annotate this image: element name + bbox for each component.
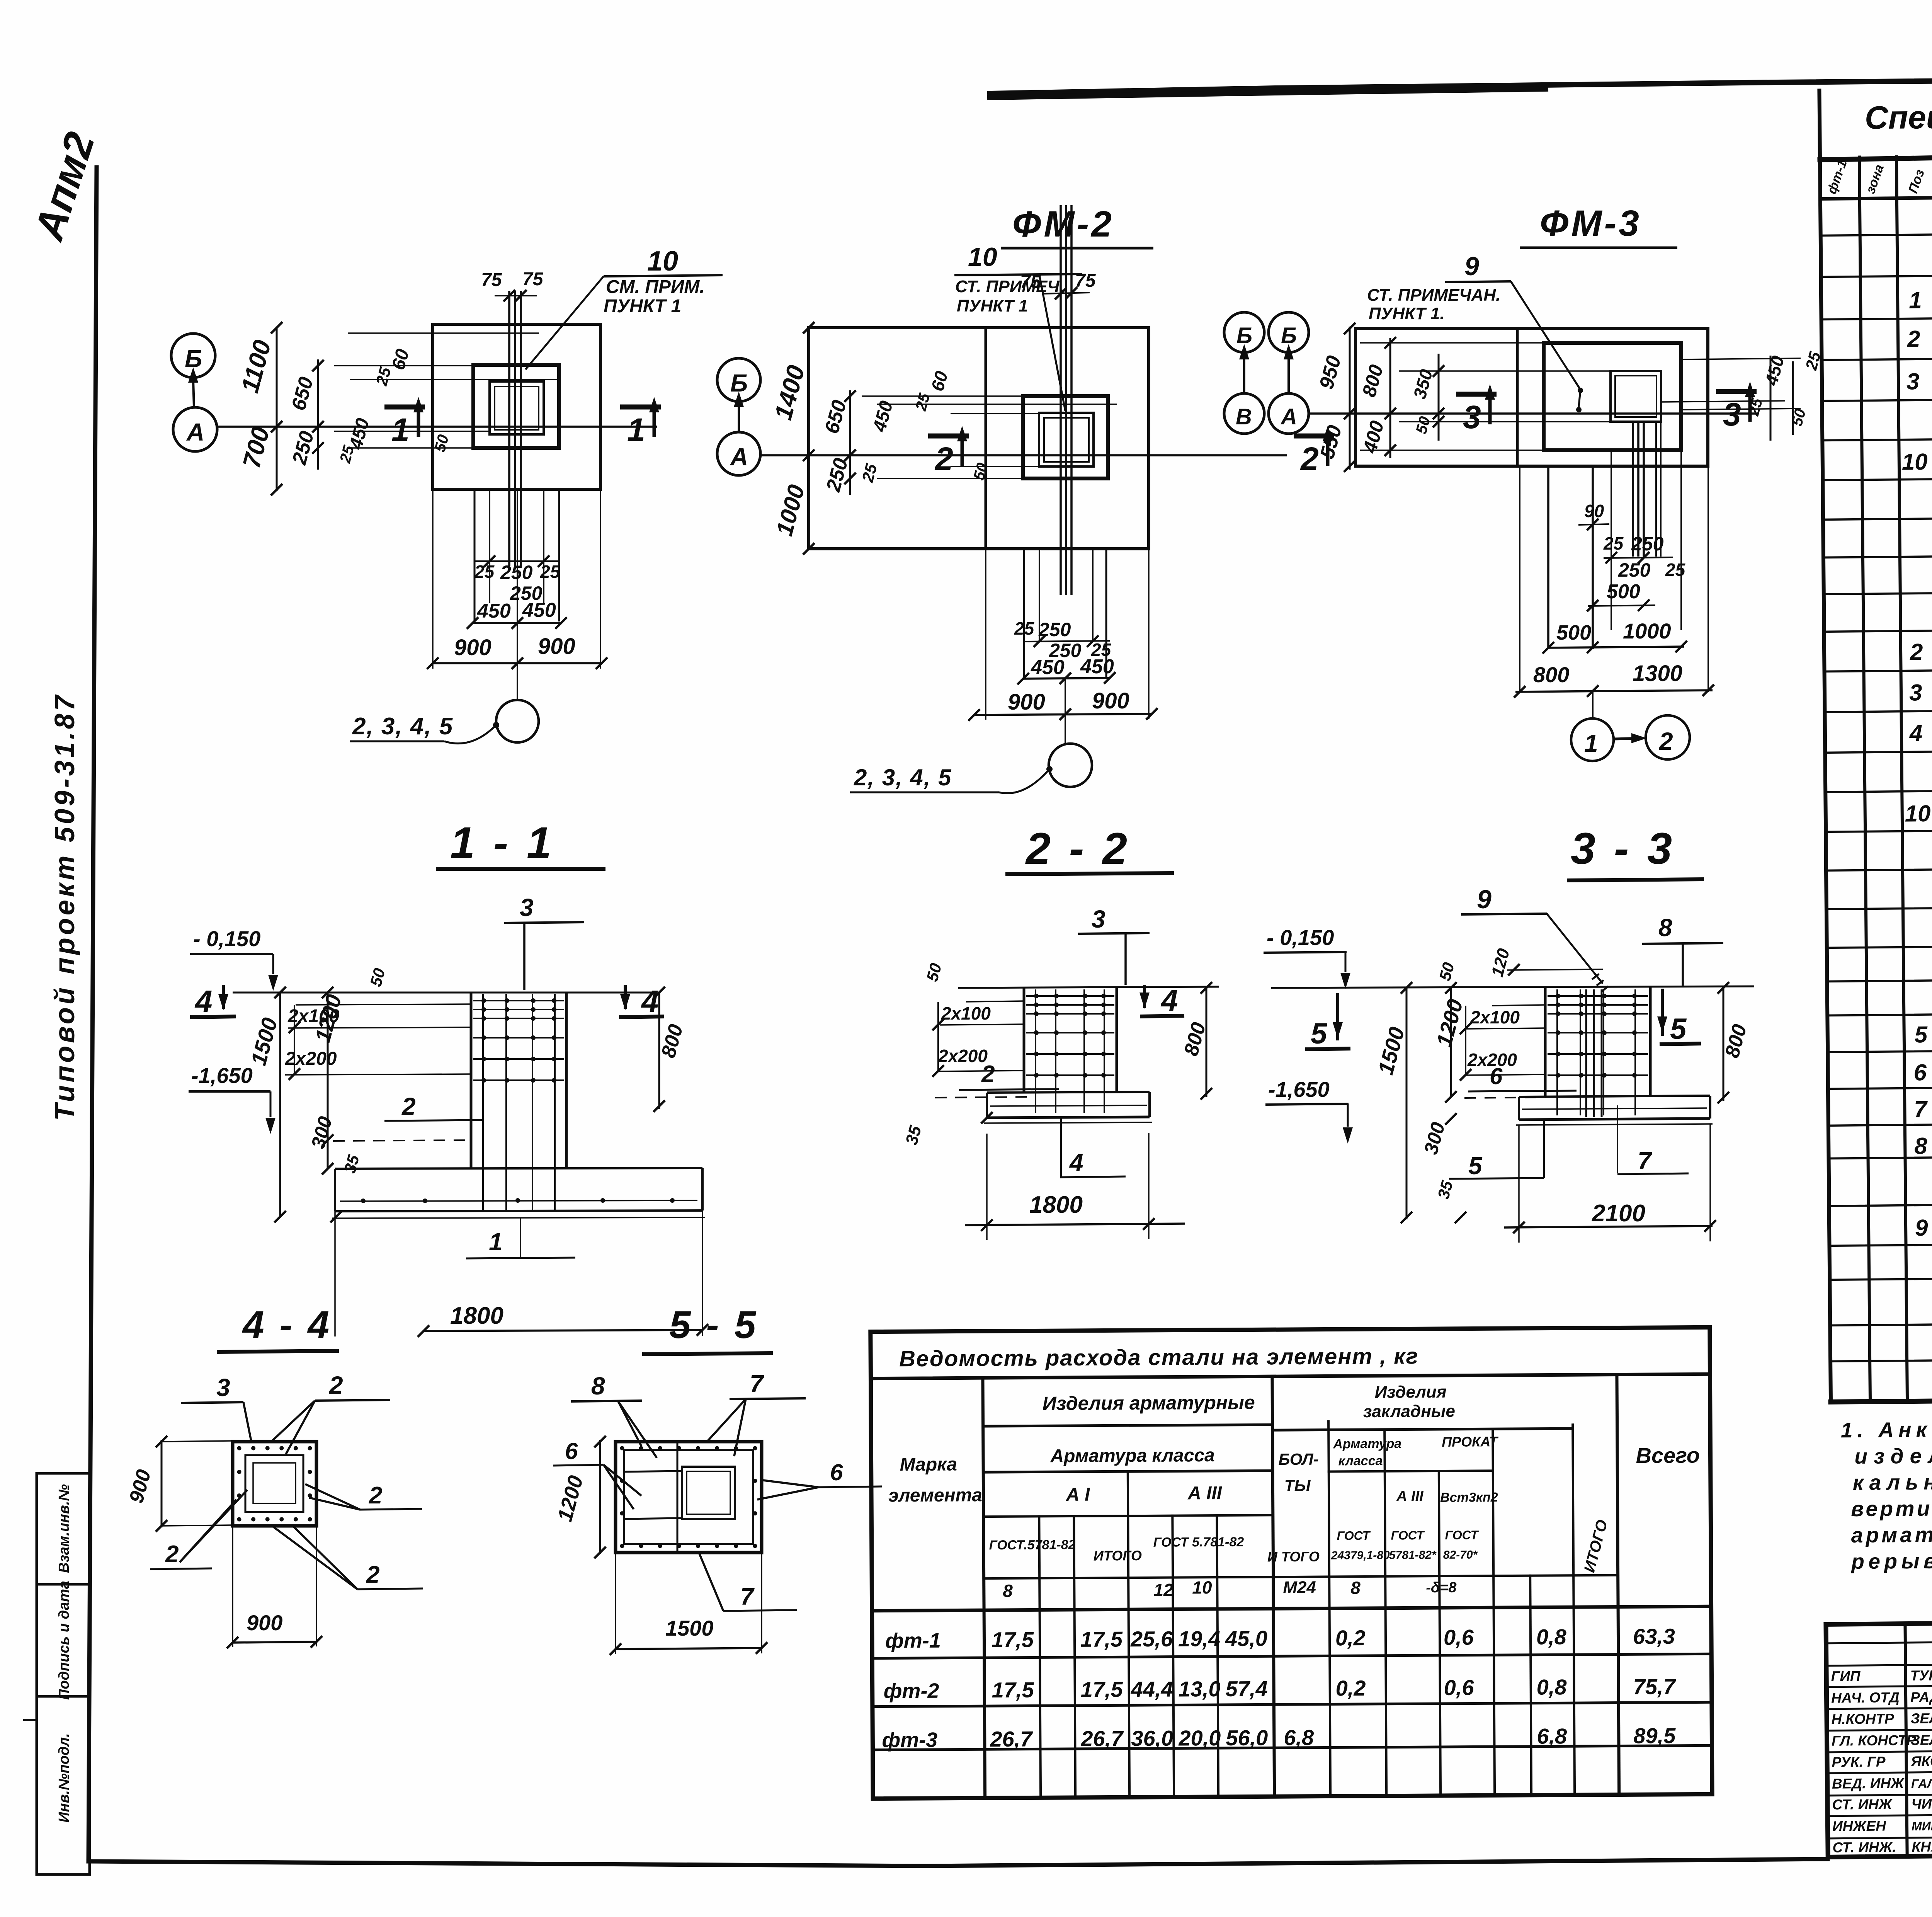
svg-text:10: 10 — [1902, 449, 1928, 475]
svg-text:ФМ-2: ФМ-2 — [1012, 204, 1114, 245]
svg-text:2: 2 — [366, 1561, 379, 1588]
plan2 section mark 2 left — [928, 434, 969, 439]
svg-text:25,6: 25,6 — [1130, 1627, 1173, 1651]
sec44 square — [233, 1442, 316, 1526]
svg-text:2х100: 2х100 — [1470, 1007, 1520, 1027]
sec11 column reinforcement — [482, 994, 484, 1210]
svg-text:рерывнон цепн молниезащи: рерывнон цепн молниезащиты. — [1850, 1546, 1932, 1573]
svg-text:6: 6 — [1913, 1059, 1927, 1085]
svg-text:5: 5 — [1670, 1013, 1687, 1045]
svg-text:6: 6 — [565, 1438, 578, 1464]
svg-text:6: 6 — [830, 1459, 843, 1485]
plan3 anchor bolts — [1632, 422, 1634, 557]
svg-text:-1,650: -1,650 — [1268, 1077, 1330, 1102]
svg-text:ПУНКТ 1.: ПУНКТ 1. — [1369, 304, 1445, 323]
plan2 section mark 2 right — [1294, 434, 1334, 439]
svg-text:Ведомость расхода ста: Ведомость расхода стали на элемент , кг — [899, 1343, 1419, 1371]
svg-text:БОЛ-: БОЛ- — [1278, 1450, 1318, 1469]
svg-text:500: 500 — [1607, 581, 1640, 603]
svg-text:8: 8 — [1350, 1578, 1361, 1598]
svg-text:2: 2 — [1659, 727, 1673, 755]
sec11 base slab — [335, 1168, 702, 1169]
sec55 dim 1200 left — [599, 1440, 601, 1554]
svg-text:2х100: 2х100 — [941, 1003, 991, 1023]
plan3 axis line — [1309, 412, 1758, 415]
sec11 right dim 800 — [658, 993, 660, 1109]
svg-text:РАДЬКО: РАДЬКО — [1910, 1689, 1932, 1705]
svg-text:24379,1-80: 24379,1-80 — [1331, 1549, 1390, 1562]
svg-text:9: 9 — [1915, 1215, 1929, 1241]
svg-text:45,0: 45,0 — [1225, 1626, 1267, 1651]
plan3 lower strip — [1519, 466, 1520, 692]
svg-text:0,2: 0,2 — [1336, 1676, 1366, 1700]
sec11 column — [470, 993, 473, 1169]
plan2 column stub — [1023, 396, 1108, 478]
svg-text:25: 25 — [474, 562, 495, 582]
plan1 lower strip — [474, 489, 476, 621]
spec table header bottom line — [1820, 191, 1932, 199]
sec33 column — [1544, 988, 1547, 1097]
svg-text:НАЧ. ОТД: НАЧ. ОТД — [1831, 1689, 1900, 1706]
sec22 column reinforcement — [1035, 989, 1036, 1113]
svg-text:250: 250 — [1618, 559, 1651, 581]
svg-text:36,0: 36,0 — [1131, 1726, 1173, 1751]
svg-text:СТ. ИНЖ: СТ. ИНЖ — [1832, 1796, 1893, 1812]
plan1 axis circle Б — [171, 334, 215, 378]
sec11 ground dashed line — [333, 1140, 471, 1141]
sec22 base slab — [987, 1092, 1150, 1093]
plan3 axis circle Б2 — [1269, 312, 1309, 352]
svg-text:4: 4 — [641, 984, 659, 1018]
svg-text:арматуре подошвы для со: арматуре подошвы для создания неп- — [1851, 1520, 1932, 1547]
svg-text:ИНЖЕН: ИНЖЕН — [1832, 1818, 1887, 1834]
specification table — [1819, 83, 1932, 1402]
svg-text:ТЫ: ТЫ — [1284, 1476, 1311, 1495]
svg-text:ПУНКТ 1: ПУНКТ 1 — [604, 296, 681, 317]
svg-text:ПРОКАТ: ПРОКАТ — [1442, 1433, 1499, 1450]
svg-text:4: 4 — [1909, 720, 1923, 746]
svg-text:2: 2 — [934, 441, 953, 477]
plan2 lower strip — [1023, 549, 1025, 677]
plan1 section mark 1 right — [620, 405, 661, 410]
sec22 column — [1023, 988, 1026, 1093]
svg-text:900: 900 — [454, 635, 492, 660]
svg-text:0,2: 0,2 — [1335, 1626, 1366, 1650]
svg-text:3: 3 — [520, 894, 534, 921]
svg-text:ГОСТ: ГОСТ — [1391, 1528, 1425, 1542]
svg-text:17,5: 17,5 — [992, 1677, 1034, 1702]
svg-text:900: 900 — [1092, 688, 1129, 713]
svg-text:2: 2 — [1300, 441, 1319, 477]
plan1 outer square — [433, 324, 600, 489]
plan ФМ-3 — [1224, 203, 1824, 761]
svg-text:9: 9 — [1464, 252, 1479, 281]
svg-text:4: 4 — [1160, 983, 1178, 1017]
svg-text:89,5: 89,5 — [1633, 1723, 1676, 1748]
svg-text:Изделия арматурные: Изделия арматурные — [1043, 1391, 1255, 1414]
svg-text:2, 3, 4, 5: 2, 3, 4, 5 — [352, 713, 453, 740]
svg-text:Вст3кп2: Вст3кп2 — [1440, 1490, 1498, 1505]
sheet frame bottom border — [88, 1859, 1828, 1866]
steel consumption table (ведомость расхода стали) — [871, 1327, 1712, 1798]
svg-text:5: 5 — [1468, 1152, 1483, 1180]
svg-text:Инв.№подл.: Инв.№подл. — [56, 1733, 72, 1822]
svg-text:8: 8 — [1003, 1581, 1013, 1601]
svg-text:Типовой проект 509-31.87: Типовой проект 509-31.87 — [49, 693, 80, 1121]
svg-text:2: 2 — [1907, 326, 1920, 352]
svg-text:0,6: 0,6 — [1444, 1675, 1474, 1700]
svg-text:0,8: 0,8 — [1536, 1675, 1567, 1699]
plan1 axis line — [217, 426, 657, 428]
svg-text:75: 75 — [522, 269, 544, 289]
svg-text:ГОСТ 5.781-82: ГОСТ 5.781-82 — [1153, 1535, 1244, 1550]
title block outer — [1826, 1617, 1932, 1857]
steel table outer — [871, 1327, 1712, 1798]
svg-text:5: 5 — [1311, 1017, 1328, 1050]
plan1 node circle 2,3,4,5 — [517, 489, 518, 700]
svg-text:2: 2 — [981, 1061, 995, 1088]
plan2 node circle 2,3,4,5 — [1065, 677, 1066, 744]
svg-text:ПУНКТ 1: ПУНКТ 1 — [957, 296, 1028, 315]
svg-text:Арматура класса: Арматура класса — [1050, 1445, 1215, 1466]
svg-text:2: 2 — [401, 1093, 416, 1120]
svg-text:А: А — [1280, 404, 1297, 429]
svg-text:25: 25 — [1014, 618, 1035, 638]
svg-text:1800: 1800 — [1029, 1192, 1083, 1218]
svg-text:Изделия: Изделия — [1375, 1382, 1447, 1402]
plan1 dim line 1100/700 — [276, 327, 278, 491]
svg-text:ГАЛАКТИОНОВА: ГАЛАКТИОНОВА — [1911, 1776, 1932, 1791]
svg-text:М24: М24 — [1283, 1578, 1316, 1597]
svg-text:- 0,150: - 0,150 — [193, 926, 260, 951]
plan2 inner square — [1039, 413, 1094, 466]
plan3 column stub — [1544, 343, 1681, 450]
spec table outer verticals — [1819, 90, 1831, 1402]
svg-text:А: А — [186, 418, 204, 446]
svg-text:Всего: Всего — [1636, 1443, 1700, 1468]
svg-text:20,0: 20,0 — [1178, 1726, 1221, 1750]
svg-text:12: 12 — [1153, 1580, 1173, 1600]
svg-text:А: А — [730, 443, 748, 471]
svg-text:3: 3 — [1092, 905, 1105, 933]
svg-text:СТ. ПРИМЕЧАН.: СТ. ПРИМЕЧАН. — [1367, 286, 1500, 305]
svg-text:75,7: 75,7 — [1633, 1674, 1676, 1699]
svg-text:вертикальную арматуру при: вертикальную арматуру приварить к — [1851, 1493, 1932, 1521]
sec55 rect — [616, 1442, 762, 1553]
svg-text:-1,650: -1,650 — [191, 1063, 253, 1088]
svg-text:3: 3 — [1463, 399, 1481, 435]
svg-text:КНЯЖИЦКАЯ: КНЯЖИЦКАЯ — [1912, 1838, 1932, 1855]
sec33 left dim 1500/1200 — [1406, 988, 1408, 1219]
plan2 extension lines — [862, 395, 1023, 397]
svg-text:900: 900 — [247, 1611, 282, 1635]
svg-text:ЗЕЛЕНСКИЙ: ЗЕЛЕНСКИЙ — [1910, 1709, 1932, 1726]
svg-text:класса: класса — [1338, 1454, 1383, 1469]
svg-text:900: 900 — [538, 634, 575, 659]
plan3 section mark 3 left — [1456, 392, 1497, 397]
spec table bottom line — [1831, 1394, 1932, 1402]
svg-text:450: 450 — [1031, 656, 1065, 679]
svg-text:6: 6 — [1490, 1063, 1503, 1089]
svg-text:44,4: 44,4 — [1131, 1677, 1173, 1702]
svg-text:Арматура: Арматура — [1333, 1436, 1401, 1451]
svg-text:ГОСТ: ГОСТ — [1445, 1528, 1479, 1542]
svg-text:1 - 1: 1 - 1 — [450, 818, 554, 868]
sec44 dim 900 left — [161, 1440, 163, 1527]
svg-text:1800: 1800 — [450, 1302, 503, 1329]
sec33 column reinforcement — [1556, 989, 1558, 1115]
svg-text:5: 5 — [1914, 1021, 1928, 1047]
sheet frame left border — [88, 167, 97, 1861]
section 4-4 — [125, 1303, 423, 1648]
sec33 top line — [1271, 986, 1754, 988]
svg-text:А I: А I — [1066, 1485, 1090, 1505]
left margin stamp boxes — [37, 1473, 90, 1874]
svg-text:1000: 1000 — [1623, 619, 1671, 643]
spec table row lines — [1821, 228, 1932, 235]
svg-text:Б: Б — [1281, 323, 1297, 348]
svg-text:СТ. ПРИМЕЧ.: СТ. ПРИМЕЧ. — [955, 277, 1064, 296]
sec55 cross lines — [677, 1442, 679, 1553]
plan1 axis connector — [193, 380, 194, 407]
plan2 anchor bolts — [1060, 205, 1062, 595]
plan2 axis circle Б — [717, 358, 760, 402]
svg-text:ЗЕЛЕНСКИЙ: ЗЕЛЕНСКИЙ — [1911, 1731, 1932, 1748]
svg-text:0,8: 0,8 — [1536, 1624, 1567, 1649]
sec11 top line — [233, 992, 657, 994]
sec33 ground dashed — [1464, 1097, 1546, 1098]
svg-text:А III: А III — [1396, 1488, 1424, 1504]
svg-text:ИТОГО: ИТОГО — [1094, 1548, 1142, 1564]
svg-text:2, 3, 4, 5: 2, 3, 4, 5 — [854, 764, 952, 790]
plan3 left dims 800/400 — [1389, 338, 1391, 458]
svg-text:РУК. ГР: РУК. ГР — [1832, 1754, 1886, 1770]
svg-text:закладные: закладные — [1363, 1402, 1455, 1421]
svg-text:6,8: 6,8 — [1284, 1725, 1314, 1750]
plan2 axis circle А — [717, 432, 760, 475]
sec33 base slab — [1519, 1096, 1710, 1097]
plan2 axis line — [760, 454, 1287, 456]
svg-text:СТ. ИНЖ.: СТ. ИНЖ. — [1832, 1839, 1896, 1855]
svg-text:450: 450 — [1080, 655, 1114, 678]
sec44 rebar dots — [237, 1446, 241, 1451]
sec55 inner square — [682, 1467, 735, 1519]
small tick marks left margin — [23, 1719, 37, 1721]
svg-text:75: 75 — [481, 270, 502, 290]
plan3 node circles 1 and 2 — [1592, 692, 1594, 718]
steel table horizontals — [983, 1425, 1272, 1426]
sec11 left dim 1500/1200 — [279, 993, 281, 1217]
svg-text:2: 2 — [329, 1371, 343, 1399]
svg-text:10: 10 — [1192, 1577, 1212, 1597]
svg-text:А III: А III — [1187, 1483, 1223, 1503]
svg-text:кальнои арматуре фунд: кальнои арматуре фундамента, — [1853, 1467, 1932, 1495]
svg-text:1: 1 — [1584, 729, 1598, 757]
svg-text:Н.КОНТР: Н.КОНТР — [1831, 1711, 1894, 1727]
plan3 right dims — [1770, 356, 1772, 441]
svg-text:ВЕД. ИНЖ: ВЕД. ИНЖ — [1832, 1775, 1905, 1792]
svg-text:90: 90 — [1584, 501, 1604, 521]
svg-text:13,0: 13,0 — [1179, 1677, 1221, 1701]
plan1 extension lines — [334, 365, 473, 366]
svg-text:450: 450 — [477, 600, 511, 622]
svg-text:500: 500 — [1556, 621, 1591, 644]
sec22 ground dashed — [935, 1097, 1028, 1098]
svg-text:2х200: 2х200 — [285, 1049, 337, 1069]
svg-text:2: 2 — [165, 1541, 179, 1568]
plan ФМ-2 — [717, 204, 1334, 793]
svg-text:19,4: 19,4 — [1178, 1626, 1220, 1651]
svg-text:10: 10 — [647, 246, 678, 277]
svg-text:2: 2 — [1910, 639, 1923, 665]
svg-text:фт-3: фт-3 — [882, 1728, 937, 1752]
plan3 left dims 350/50 — [1438, 354, 1440, 441]
svg-text:26,7: 26,7 — [990, 1726, 1033, 1751]
plan2 outer rect — [809, 328, 1149, 549]
svg-text:25: 25 — [1603, 533, 1624, 553]
svg-text:ГОСТ: ГОСТ — [1337, 1529, 1371, 1542]
svg-text:63,3: 63,3 — [1633, 1624, 1675, 1649]
svg-text:3: 3 — [216, 1374, 230, 1401]
svg-text:25: 25 — [540, 562, 561, 582]
plan3 axis circle В — [1224, 393, 1264, 434]
svg-text:250: 250 — [1631, 533, 1664, 555]
svg-text:ЯКСУНОВ: ЯКСУНОВ — [1910, 1753, 1932, 1769]
svg-text:1300: 1300 — [1633, 661, 1682, 686]
svg-text:3 - 3: 3 - 3 — [1571, 824, 1675, 873]
plan3 section mark 3 right — [1716, 389, 1757, 394]
svg-text:1: 1 — [391, 412, 410, 448]
plan3 outer rect — [1355, 329, 1708, 466]
svg-text:250: 250 — [500, 562, 533, 583]
svg-text:Б: Б — [1236, 323, 1252, 348]
section 3-3 — [1264, 824, 1754, 1243]
svg-text:8: 8 — [591, 1372, 605, 1400]
svg-text:25: 25 — [1665, 560, 1686, 580]
section 1-1 — [189, 818, 708, 1337]
svg-text:фт-2: фт-2 — [884, 1679, 939, 1703]
svg-text:2 - 2: 2 - 2 — [1025, 824, 1130, 873]
note text (примечание) — [1841, 1412, 1932, 1573]
svg-text:ТУРИНСКИЙ: ТУРИНСКИЙ — [1910, 1667, 1932, 1684]
svg-text:450: 450 — [522, 599, 556, 621]
plan2 dims 1400/1000 — [803, 322, 815, 334]
svg-text:элемента: элемента — [888, 1485, 982, 1506]
svg-text:10: 10 — [1905, 800, 1930, 827]
svg-text:3: 3 — [1723, 396, 1741, 432]
plan3 axis circle А — [1269, 393, 1309, 434]
steel table verticals — [983, 1378, 985, 1798]
svg-text:2100: 2100 — [1592, 1200, 1645, 1227]
svg-text:Взам.инв.№: Взам.инв.№ — [56, 1484, 72, 1573]
svg-text:1: 1 — [489, 1228, 503, 1256]
svg-text:ЧИРВА: ЧИРВА — [1911, 1796, 1932, 1812]
svg-text:Марка: Марка — [900, 1454, 957, 1475]
plan1 section mark 1 left — [384, 405, 425, 410]
svg-text:2: 2 — [369, 1482, 382, 1509]
svg-text:1: 1 — [627, 412, 645, 448]
svg-text:4: 4 — [194, 984, 213, 1018]
svg-text:900: 900 — [1008, 690, 1045, 715]
svg-text:фт-1: фт-1 — [885, 1629, 941, 1653]
sec55 rebar dots — [620, 1446, 624, 1451]
svg-text:0,6: 0,6 — [1444, 1625, 1474, 1650]
svg-text:9: 9 — [1477, 885, 1492, 914]
svg-text:3: 3 — [1909, 679, 1922, 705]
sec22 top line — [958, 987, 1219, 988]
plan1 inner square — [490, 381, 544, 434]
sec33 right dim 800 — [1723, 988, 1725, 1101]
svg-text:4 - 4: 4 - 4 — [242, 1303, 332, 1347]
plan3 axis connectors — [1243, 357, 1245, 393]
steel table title separator — [871, 1374, 1710, 1378]
sheet frame top border — [990, 75, 1932, 94]
svg-text:10: 10 — [968, 242, 997, 272]
svg-text:И ТОГО: И ТОГО — [1267, 1549, 1320, 1565]
title block (основная надпись) — [1826, 1617, 1932, 1859]
spec table column verticals — [1859, 157, 1870, 1402]
svg-text:-δ=8: -δ=8 — [1426, 1580, 1457, 1596]
svg-text:МИРОШНИЧЕНКО: МИРОШНИЧЕНКО — [1912, 1818, 1932, 1833]
sec22 right dim 800 — [1206, 988, 1207, 1097]
svg-text:Спецификация: Спецификация — [1865, 97, 1932, 136]
plan2 dims 650/250 — [849, 390, 851, 495]
svg-text:Подпись и дата: Подпись и дата — [56, 1581, 72, 1700]
svg-text:1: 1 — [1909, 287, 1922, 313]
plan3 step line — [1516, 329, 1519, 466]
plan ФМ-1 — [171, 246, 723, 744]
svg-text:2х200: 2х200 — [938, 1046, 988, 1066]
plan3 axis circle Б1 — [1224, 312, 1264, 352]
section 5-5 — [553, 1303, 882, 1655]
spec table header slant line — [1820, 145, 1932, 160]
svg-text:17,5: 17,5 — [1081, 1677, 1123, 1702]
svg-text:4: 4 — [1069, 1149, 1083, 1176]
svg-text:800: 800 — [1533, 662, 1569, 687]
plan3 inner square — [1611, 371, 1661, 422]
plan2 axis connector — [738, 405, 740, 432]
section 2-2 — [902, 824, 1219, 1240]
svg-text:1500: 1500 — [665, 1616, 714, 1640]
svg-text:17,5: 17,5 — [992, 1627, 1034, 1652]
svg-text:5781-82*: 5781-82* — [1389, 1549, 1437, 1562]
svg-text:7: 7 — [740, 1583, 755, 1610]
svg-text:ГОСТ.5781-82: ГОСТ.5781-82 — [989, 1537, 1076, 1553]
svg-text:6,8: 6,8 — [1537, 1724, 1567, 1748]
plan1 column stub — [473, 365, 559, 448]
svg-text:СМ. ПРИМ.: СМ. ПРИМ. — [606, 277, 705, 297]
svg-text:5 - 5: 5 - 5 — [669, 1303, 758, 1347]
svg-text:82-70*: 82-70* — [1443, 1548, 1478, 1561]
svg-text:56,0: 56,0 — [1226, 1725, 1268, 1750]
svg-text:26,7: 26,7 — [1080, 1726, 1124, 1751]
svg-text:В: В — [1236, 404, 1252, 429]
svg-text:ГИП: ГИП — [1831, 1668, 1861, 1684]
svg-text:ГЛ. КОНСТР: ГЛ. КОНСТР — [1832, 1732, 1916, 1749]
svg-text:57,4: 57,4 — [1226, 1676, 1268, 1701]
plan1 dim line 650/250 — [317, 359, 319, 470]
svg-text:8: 8 — [1914, 1133, 1928, 1159]
svg-text:ФМ-3: ФМ-3 — [1540, 203, 1641, 244]
svg-text:7: 7 — [1914, 1096, 1928, 1122]
svg-text:7: 7 — [1638, 1147, 1653, 1175]
title block verticals — [1905, 1624, 1907, 1856]
svg-text:8: 8 — [1658, 914, 1672, 941]
plan1 anchor bolts — [508, 291, 510, 566]
svg-text:17,5: 17,5 — [1080, 1627, 1123, 1651]
plan3 left dims 950/550 — [1349, 327, 1351, 470]
title block horizontals left — [1826, 1641, 1932, 1643]
